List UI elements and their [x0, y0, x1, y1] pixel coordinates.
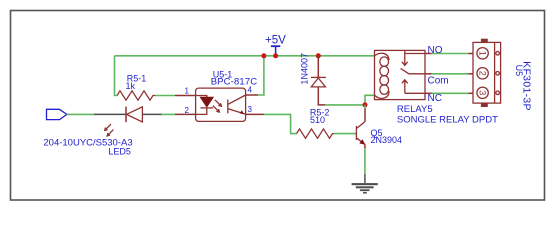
wire Com to connector — [425, 73, 432, 75]
op-amp U5-1 optocoupler BPC-817C — [196, 88, 246, 121]
wire pin3 to R5-2 — [264, 114, 297, 133]
svg-text:KF301-3P: KF301-3P — [520, 61, 532, 111]
power +5V — [265, 34, 286, 55]
wire pin4 lead — [246, 94, 258, 96]
svg-text:RELAY5: RELAY5 — [397, 104, 433, 115]
svg-text:3: 3 — [248, 105, 253, 114]
wire NC to connector — [425, 92, 432, 94]
wire diode to collector node — [325, 104, 365, 106]
wire pin4 to rail — [258, 56, 264, 95]
diode D: 1N4007 — [311, 56, 326, 105]
svg-text:1N4007: 1N4007 — [299, 53, 309, 85]
wire pin3 lead — [246, 113, 264, 115]
resistor R5-1 — [117, 91, 155, 100]
LED D: LED5 — [105, 107, 143, 136]
wire rail down to R5-1 — [115, 56, 118, 96]
wire node to Q5 collector — [364, 105, 366, 108]
svg-text:1k: 1k — [125, 81, 135, 91]
junction dot rail-+5V — [273, 53, 278, 58]
wire LED5 to U5-1 pin2 — [162, 113, 176, 115]
svg-text:2N3904: 2N3904 — [371, 135, 403, 145]
node IN port — [47, 109, 67, 119]
svg-text:4: 4 — [248, 85, 253, 94]
ground — [352, 183, 378, 193]
resistor R5-2 — [297, 129, 335, 138]
wire port to LED5 — [67, 113, 94, 115]
transistor Q5 2N3904 — [356, 122, 365, 145]
junction dot rail-pin4 — [261, 53, 266, 58]
wire relay coil return — [365, 95, 375, 105]
wire lead into pin2 — [175, 113, 196, 115]
wire gray LED5 right lead — [143, 113, 162, 115]
wire lead into pin1 — [175, 95, 196, 97]
relay RELAY5 — [375, 50, 426, 99]
svg-text:SONGLE RELAY DPDT: SONGLE RELAY DPDT — [397, 115, 498, 126]
svg-text:510: 510 — [310, 115, 325, 125]
wire R5-1 to U5-1 pin1 — [155, 95, 175, 97]
svg-text:2: 2 — [477, 71, 487, 76]
wire gray LED5 left lead — [94, 113, 126, 115]
wire R5-2 to base — [334, 133, 356, 135]
svg-text:LED5: LED5 — [108, 146, 131, 156]
junction dot rail-diode — [316, 53, 321, 58]
svg-text:2: 2 — [185, 106, 190, 115]
svg-text:NC: NC — [428, 93, 442, 104]
svg-text:1: 1 — [477, 51, 487, 56]
svg-text:+5V: +5V — [265, 34, 286, 46]
wire emitter to ground — [364, 144, 366, 148]
wire +5V rail — [115, 55, 375, 57]
svg-text:Com: Com — [428, 75, 449, 86]
svg-text:3: 3 — [477, 90, 487, 95]
svg-text:1: 1 — [185, 87, 190, 96]
connector U5 KF301-3P — [473, 39, 501, 107]
wire NO to connector — [425, 53, 432, 55]
junction node collector — [363, 102, 368, 107]
